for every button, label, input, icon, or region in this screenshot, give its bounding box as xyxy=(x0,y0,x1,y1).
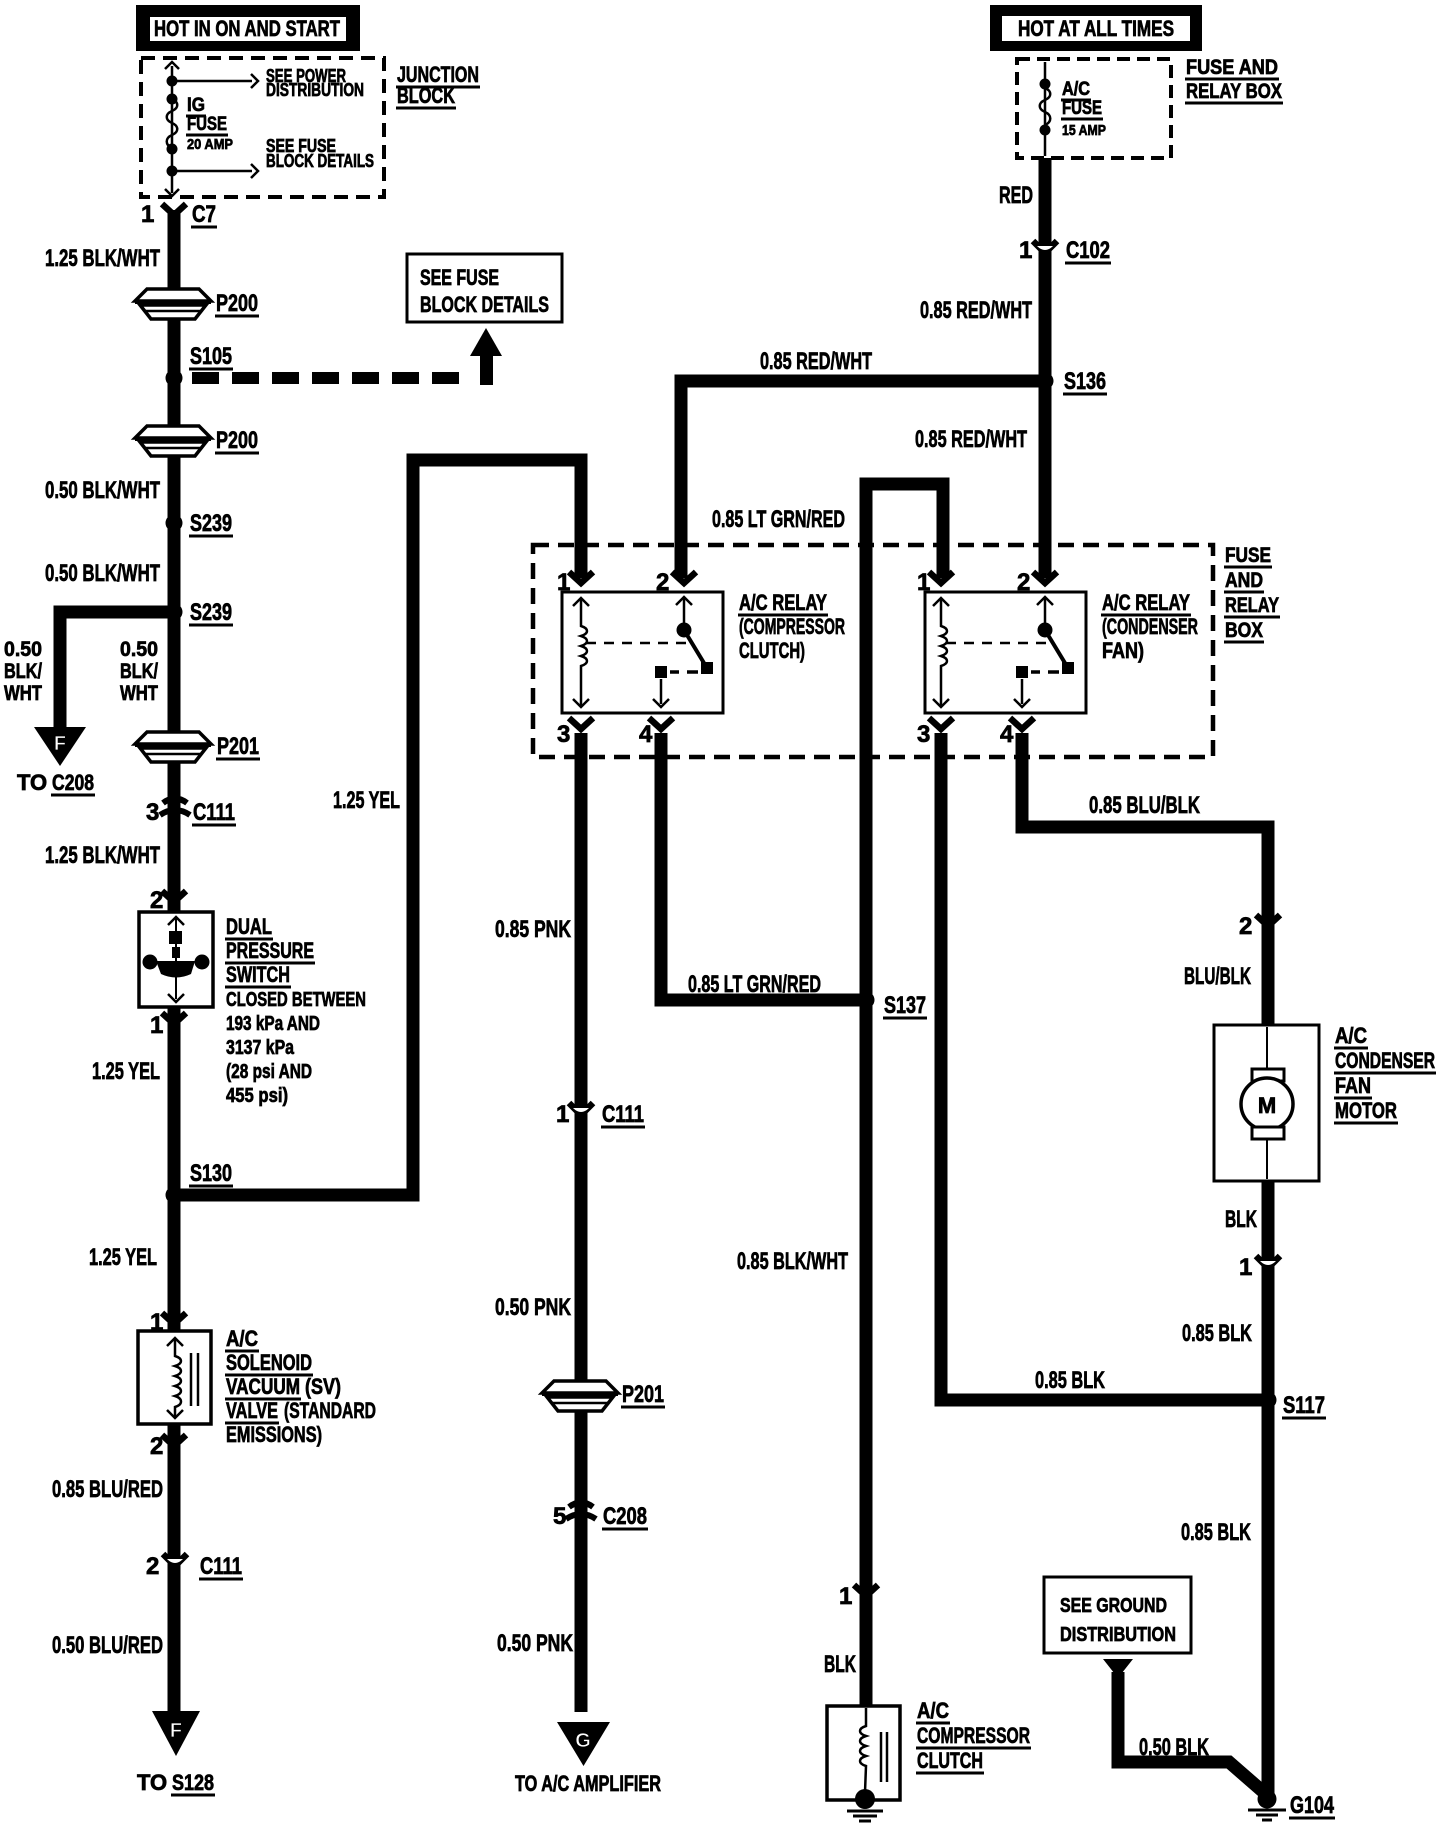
svg-text:BLOCK: BLOCK xyxy=(397,83,455,108)
svg-text:C7: C7 xyxy=(192,201,216,228)
svg-text:4: 4 xyxy=(639,721,653,748)
svg-text:A/C RELAY: A/C RELAY xyxy=(739,590,827,615)
branch wire to F arrow xyxy=(60,612,168,728)
compressor clutch coil xyxy=(860,1708,866,1792)
svg-text:AND: AND xyxy=(1225,569,1263,592)
svg-text:1: 1 xyxy=(1019,237,1032,264)
relay coil xyxy=(581,598,587,707)
svg-text:BLU/BLK: BLU/BLK xyxy=(1184,963,1251,990)
dual pressure switch internals xyxy=(175,917,177,933)
svg-text:3: 3 xyxy=(557,721,570,748)
ground G104 xyxy=(1258,1790,1277,1809)
svg-text:FUSE AND: FUSE AND xyxy=(1186,56,1278,79)
svg-text:3: 3 xyxy=(917,721,930,748)
svg-text:1.25 YEL: 1.25 YEL xyxy=(92,1058,160,1085)
svg-text:WHT: WHT xyxy=(4,682,42,705)
svg-text:S137: S137 xyxy=(884,992,926,1019)
dashed wire from S105 to SEE FUSE BLOCK DETAILS xyxy=(192,372,472,384)
svg-text:0.85 BLK: 0.85 BLK xyxy=(1181,1519,1251,1546)
svg-text:0.50 PNK: 0.50 PNK xyxy=(495,1294,571,1321)
svg-text:IG: IG xyxy=(187,95,205,116)
svg-text:455 psi): 455 psi) xyxy=(226,1085,288,1107)
svg-text:C111: C111 xyxy=(200,1553,242,1580)
grommet P201 left xyxy=(135,732,211,744)
svg-text:RED: RED xyxy=(999,182,1033,209)
svg-text:0.85 RED/WHT: 0.85 RED/WHT xyxy=(760,348,872,375)
svg-text:P201: P201 xyxy=(622,1381,664,1408)
svg-text:20 AMP: 20 AMP xyxy=(187,136,233,153)
svg-text:C208: C208 xyxy=(52,770,94,795)
A/C condenser fan motor box xyxy=(1214,1025,1319,1181)
wire 0.85 PNK from compressor relay pin 3 to A/C amplifier xyxy=(575,733,588,1712)
svg-text:1.25 YEL: 1.25 YEL xyxy=(333,787,400,814)
svg-text:DUAL: DUAL xyxy=(226,914,272,939)
svg-text:DISTRIBUTION: DISTRIBUTION xyxy=(266,80,364,100)
svg-text:A/C RELAY: A/C RELAY xyxy=(1102,590,1190,615)
A/C solenoid vacuum valve box xyxy=(138,1331,211,1424)
svg-text:FAN: FAN xyxy=(1335,1073,1371,1098)
svg-text:1: 1 xyxy=(141,201,154,228)
svg-text:A/C: A/C xyxy=(1062,79,1090,100)
relay box xyxy=(562,592,723,713)
svg-text:0.85 LT GRN/RED: 0.85 LT GRN/RED xyxy=(688,971,821,998)
svg-text:G: G xyxy=(575,1730,591,1752)
splice S239 upper xyxy=(166,515,183,532)
svg-text:0.50 PNK: 0.50 PNK xyxy=(497,1630,573,1657)
wire 0.85 BLK/WHT down to compressor clutch xyxy=(860,1000,873,1710)
svg-text:C111: C111 xyxy=(193,799,235,826)
svg-text:CLUTCH: CLUTCH xyxy=(917,1748,983,1773)
wire 0.85 BLU/RED xyxy=(168,1424,181,1712)
svg-text:BLOCK DETAILS: BLOCK DETAILS xyxy=(420,292,549,317)
svg-text:S105: S105 xyxy=(190,343,232,370)
svg-text:0.50 BLK: 0.50 BLK xyxy=(1139,1734,1209,1761)
svg-text:P200: P200 xyxy=(216,290,258,317)
svg-text:0.50 BLK/WHT: 0.50 BLK/WHT xyxy=(45,477,160,504)
svg-text:VALVE: VALVE xyxy=(226,1398,278,1423)
fan motor symbol xyxy=(1266,1027,1268,1069)
svg-text:1: 1 xyxy=(1239,1254,1252,1281)
svg-text:BLK: BLK xyxy=(1225,1206,1257,1233)
svg-text:WHT: WHT xyxy=(120,682,158,705)
relay switch contacts xyxy=(1044,597,1047,627)
grommet P200 lower xyxy=(135,426,211,438)
splice S137 xyxy=(858,992,875,1009)
wire 1.25 YEL from S130 to A/C relay pin 1 xyxy=(180,460,581,1195)
power tag HOT AT ALL TIMES xyxy=(990,5,1202,51)
svg-text:TO: TO xyxy=(137,1770,167,1795)
svg-text:A/C: A/C xyxy=(917,1698,949,1723)
arrow to SEE FUSE BLOCK DETAILS xyxy=(172,170,252,173)
svg-text:BLK: BLK xyxy=(824,1651,856,1678)
svg-text:0.85 BLK: 0.85 BLK xyxy=(1035,1367,1105,1394)
svg-text:4: 4 xyxy=(1000,721,1014,748)
A/C compressor clutch box xyxy=(827,1706,900,1800)
svg-text:S117: S117 xyxy=(1283,1392,1325,1419)
svg-text:P201: P201 xyxy=(217,733,259,760)
svg-text:2: 2 xyxy=(150,887,163,914)
svg-text:2: 2 xyxy=(1239,913,1252,940)
svg-text:SEE FUSE: SEE FUSE xyxy=(420,265,499,290)
svg-text:15 AMP: 15 AMP xyxy=(1062,122,1106,139)
svg-text:C208: C208 xyxy=(603,1503,647,1530)
wire 0.85 BLK from condenser relay pin 3 to S117 xyxy=(941,733,1262,1400)
svg-text:A/C: A/C xyxy=(1335,1023,1367,1048)
grommet P200 upper xyxy=(135,289,211,301)
dual pressure switch box xyxy=(139,912,213,1007)
svg-text:RELAY BOX: RELAY BOX xyxy=(1186,80,1282,103)
compressor clutch ground xyxy=(855,1789,875,1809)
svg-text:HOT AT ALL TIMES: HOT AT ALL TIMES xyxy=(1018,16,1174,41)
svg-text:0.85 BLK/WHT: 0.85 BLK/WHT xyxy=(737,1248,848,1275)
relay coil xyxy=(941,598,947,707)
svg-text:F: F xyxy=(54,733,66,755)
svg-text:SEE GROUND: SEE GROUND xyxy=(1060,1595,1167,1617)
arrow F to C208 xyxy=(34,727,86,766)
wire 1.25 BLK/WHT from C7 down to pressure switch xyxy=(168,210,181,916)
splice S136 xyxy=(1037,373,1054,390)
wire 0.85 BLU/BLK from condenser relay pin 4 to fan motor xyxy=(1022,733,1268,1030)
splice S130 and wire to relay xyxy=(166,1187,183,1204)
solenoid valve plates xyxy=(190,1353,193,1406)
wire 0.85 RED/WHT from S136 to compressor relay pin 2 xyxy=(681,381,1039,578)
wire 1.25 YEL pressure switch to solenoid valve xyxy=(168,1008,181,1336)
svg-text:HOT IN ON AND START: HOT IN ON AND START xyxy=(154,16,340,41)
svg-text:PRESSURE: PRESSURE xyxy=(226,938,314,963)
svg-text:FUSE: FUSE xyxy=(1062,98,1102,119)
svg-text:193 kPa AND: 193 kPa AND xyxy=(226,1013,320,1035)
svg-text:0.85 BLU/BLK: 0.85 BLU/BLK xyxy=(1089,792,1200,819)
svg-text:(CONDENSER: (CONDENSER xyxy=(1102,614,1198,639)
junction block tap node (power distribution) xyxy=(167,76,178,87)
splice S239 lower xyxy=(166,604,183,621)
svg-text:C102: C102 xyxy=(1066,237,1110,264)
grommet P201 middle xyxy=(542,1381,618,1393)
svg-text:TO: TO xyxy=(17,770,47,795)
svg-text:S239: S239 xyxy=(190,510,232,537)
svg-text:1.25 YEL: 1.25 YEL xyxy=(89,1244,157,1271)
wire 0.85 LT GRN/RED arch to condenser relay pin 1 xyxy=(866,484,943,1005)
svg-text:0.50: 0.50 xyxy=(4,638,42,661)
svg-text:BLOCK DETAILS: BLOCK DETAILS xyxy=(266,151,374,171)
svg-text:(28 psi AND: (28 psi AND xyxy=(226,1061,312,1083)
svg-text:MOTOR: MOTOR xyxy=(1335,1098,1397,1123)
box SEE GROUND DISTRIBUTION xyxy=(1044,1577,1191,1653)
fuse and relay box (top) dashed outline xyxy=(1017,59,1171,158)
svg-text:1.25 BLK/WHT: 1.25 BLK/WHT xyxy=(45,245,160,272)
junction block dashed box xyxy=(141,58,384,197)
junction block lower tap node xyxy=(167,166,178,177)
svg-text:0.50 BLK/WHT: 0.50 BLK/WHT xyxy=(45,560,160,587)
wire 0.50 BLK to G104 xyxy=(1118,1672,1268,1796)
arrow to SEE POWER DISTRIBUTION xyxy=(172,80,252,83)
svg-text:3: 3 xyxy=(146,799,159,826)
svg-text:0.50 BLU/RED: 0.50 BLU/RED xyxy=(52,1632,163,1659)
svg-text:S239: S239 xyxy=(190,599,232,626)
relay box xyxy=(925,592,1086,713)
fuse and relay box dashed outline xyxy=(533,545,1213,757)
wire 0.85 LT GRN/RED from compressor relay pin 4 to S137 xyxy=(661,733,866,1000)
compressor clutch plates xyxy=(880,1732,883,1782)
relay switch contacts xyxy=(683,597,686,627)
svg-text:0.85 RED/WHT: 0.85 RED/WHT xyxy=(915,426,1027,453)
svg-text:TO A/C AMPLIFIER: TO A/C AMPLIFIER xyxy=(515,1771,661,1796)
wire BLK below fan motor xyxy=(1262,1181,1275,1794)
svg-text:F: F xyxy=(170,1720,182,1742)
svg-text:FUSE: FUSE xyxy=(187,114,227,135)
wire RED from A/C fuse down to relay pin 2 xyxy=(1039,158,1052,578)
svg-text:EMISSIONS): EMISSIONS) xyxy=(226,1422,322,1447)
svg-text:S130: S130 xyxy=(190,1160,232,1187)
svg-text:2: 2 xyxy=(1017,569,1030,596)
svg-text:P200: P200 xyxy=(216,427,258,454)
svg-text:2: 2 xyxy=(656,569,669,596)
svg-text:BLK/: BLK/ xyxy=(120,660,158,683)
svg-text:1: 1 xyxy=(839,1583,852,1610)
arrow from ground distribution box xyxy=(1103,1659,1133,1678)
svg-text:VACUUM: VACUUM xyxy=(226,1374,300,1399)
svg-text:SOLENOID: SOLENOID xyxy=(226,1350,312,1375)
svg-text:3137 kPa: 3137 kPa xyxy=(226,1037,295,1059)
splice S117 xyxy=(1260,1392,1277,1409)
svg-text:SWITCH: SWITCH xyxy=(226,962,290,987)
svg-text:(SV): (SV) xyxy=(305,1374,341,1399)
svg-text:0.85 RED/WHT: 0.85 RED/WHT xyxy=(920,297,1032,324)
relay dashed actuator line xyxy=(586,642,687,645)
svg-text:BLK/: BLK/ xyxy=(4,660,42,683)
svg-text:A/C: A/C xyxy=(226,1326,258,1351)
svg-text:0.50: 0.50 xyxy=(120,638,158,661)
solenoid coil xyxy=(175,1338,181,1418)
svg-text:CLOSED BETWEEN: CLOSED BETWEEN xyxy=(226,989,366,1011)
svg-text:0.85 BLU/RED: 0.85 BLU/RED xyxy=(52,1476,163,1503)
svg-text:COMPRESSOR: COMPRESSOR xyxy=(917,1723,1030,1748)
svg-text:0.85 PNK: 0.85 PNK xyxy=(495,916,571,943)
svg-text:0.85 BLK: 0.85 BLK xyxy=(1182,1320,1252,1347)
svg-text:M: M xyxy=(1258,1093,1276,1118)
svg-text:2: 2 xyxy=(146,1553,159,1580)
svg-text:DISTRIBUTION: DISTRIBUTION xyxy=(1060,1624,1176,1646)
svg-text:CLUTCH): CLUTCH) xyxy=(739,638,805,663)
svg-text:CONDENSER: CONDENSER xyxy=(1335,1048,1435,1073)
svg-text:BOX: BOX xyxy=(1225,619,1263,642)
power tag HOT IN ON AND START xyxy=(136,5,360,51)
svg-text:C111: C111 xyxy=(602,1101,644,1128)
svg-text:S136: S136 xyxy=(1064,368,1106,395)
svg-text:(COMPRESSOR: (COMPRESSOR xyxy=(739,614,845,639)
splice S105 xyxy=(166,370,183,387)
A/C fuse 15 AMP xyxy=(1044,62,1047,156)
relay dashed actuator line xyxy=(946,642,1048,645)
svg-text:(STANDARD: (STANDARD xyxy=(284,1398,376,1423)
svg-text:FUSE: FUSE xyxy=(1225,544,1271,567)
fuse IG FUSE 20 AMP xyxy=(167,94,178,105)
svg-text:1.25 BLK/WHT: 1.25 BLK/WHT xyxy=(45,842,160,869)
arrow G to A/C amplifier xyxy=(557,1722,610,1766)
svg-text:0.85 LT GRN/RED: 0.85 LT GRN/RED xyxy=(712,506,845,533)
svg-text:G104: G104 xyxy=(1290,1792,1334,1819)
junction block internal wire xyxy=(171,66,174,193)
svg-text:FAN): FAN) xyxy=(1102,638,1144,663)
svg-text:S128: S128 xyxy=(172,1770,214,1795)
arrow F to S128 xyxy=(152,1711,200,1756)
box SEE FUSE BLOCK DETAILS xyxy=(407,254,562,322)
svg-text:RELAY: RELAY xyxy=(1225,594,1279,617)
